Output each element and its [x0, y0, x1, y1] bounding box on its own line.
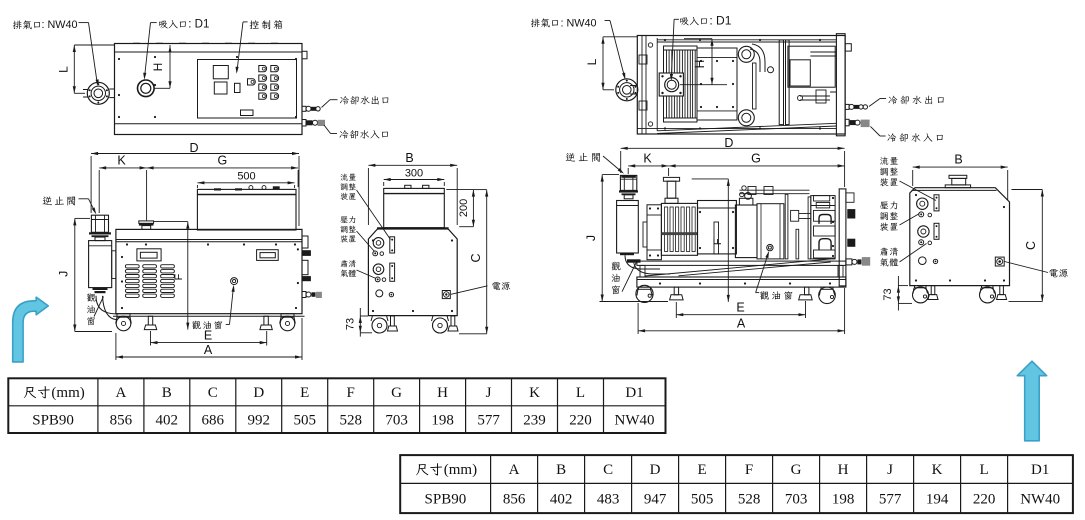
- rs slot gauge 2: [934, 223, 939, 239]
- rs bolt dots: [915, 279, 917, 281]
- name plate right: [257, 250, 279, 261]
- rf left pump block: [647, 205, 661, 260]
- diagonal pipe bottom (top view): [657, 123, 836, 131]
- rf center block: [698, 201, 737, 254]
- svg-text:: D1: : D1: [188, 19, 209, 31]
- oil tank on top: [197, 189, 296, 230]
- svg-text:73: 73: [345, 318, 357, 330]
- svg-text:B: B: [162, 385, 172, 401]
- side feet: [391, 316, 395, 326]
- center plate (top view): [697, 48, 737, 120]
- svg-text:C: C: [469, 253, 483, 262]
- label 電源 (left side): [492, 282, 500, 290]
- svg-text:947: 947: [644, 491, 667, 507]
- leader 排氣口 right: [605, 20, 611, 22]
- rf mid panel: [757, 204, 784, 259]
- svg-text:J: J: [887, 462, 893, 478]
- leader 吸入口 left: [151, 22, 157, 24]
- svg-text:K: K: [643, 152, 652, 166]
- svg-text:300: 300: [405, 167, 423, 179]
- rs body: [910, 188, 1010, 286]
- svg-text:L: L: [980, 462, 989, 478]
- svg-text:NW40: NW40: [615, 412, 655, 428]
- tank caps: [405, 185, 411, 188]
- labels 冷卻水出口 (left top): [340, 96, 349, 105]
- dimension table right (SPB90): [400, 455, 1073, 513]
- label 排氣口: NW40 (left): [13, 21, 22, 30]
- leader 觀油窗 vertical: [94, 297, 104, 317]
- dim A (right): [638, 330, 845, 332]
- svg-text:G: G: [218, 154, 228, 168]
- top view inner top wall lines: [657, 39, 836, 41]
- svg-text:856: 856: [110, 412, 133, 428]
- label 觀油窗 vertical (right front): [611, 262, 620, 271]
- svg-text:H: H: [838, 462, 849, 478]
- label 觀油窗 horizontal (right front): [760, 291, 769, 300]
- rs top cap: [949, 175, 967, 178]
- svg-text:E: E: [698, 462, 707, 478]
- leader 流量 right: [900, 181, 937, 201]
- tank top fittings: [214, 188, 221, 190]
- svg-text:73: 73: [882, 288, 894, 300]
- lower right pipes (top view): [800, 92, 836, 100]
- svg-text:194: 194: [926, 491, 949, 507]
- svg-text:F: F: [347, 385, 355, 401]
- oil sight glass (front): [231, 278, 238, 285]
- small circles under knob1: [373, 251, 378, 256]
- svg-text:D: D: [189, 141, 198, 155]
- label 吸入口: D1 (left): [159, 21, 168, 29]
- rs lower circles: [919, 257, 927, 265]
- svg-text:703: 703: [385, 412, 408, 428]
- dim J (left): [74, 218, 76, 331]
- rf foot left: [674, 287, 678, 295]
- front view right edge bracket 1: [302, 236, 308, 248]
- svg-text:198: 198: [431, 412, 454, 428]
- left top view small tab right: [302, 51, 307, 59]
- rs caster right: [982, 286, 994, 288]
- rf right studs: [846, 193, 854, 202]
- leader 控制箱: [243, 21, 248, 23]
- label 壓力調整裝置 (right side): [880, 201, 888, 209]
- filter drain elbow: [96, 296, 117, 314]
- intake tube on body top: [139, 221, 154, 223]
- left side view: body: [368, 228, 457, 315]
- svg-text:A: A: [115, 385, 126, 401]
- tall bars (top view): [779, 40, 783, 125]
- svg-text:856: 856: [503, 491, 526, 507]
- svg-text:B: B: [954, 153, 962, 167]
- blower circle bottom: [738, 110, 754, 126]
- rf diagonal oil pipes: [645, 259, 831, 276]
- svg-text:220: 220: [569, 412, 592, 428]
- rf caster right: [821, 287, 833, 289]
- svg-text:D: D: [724, 136, 733, 150]
- cyan elbow arrow bottom-left: [13, 297, 49, 362]
- svg-text:D: D: [650, 462, 661, 478]
- exhaust flange NW40 (top view): [87, 82, 109, 104]
- svg-text:577: 577: [477, 412, 500, 428]
- left front view: main body: [116, 229, 302, 313]
- dim H (right top): [711, 39, 713, 85]
- svg-text:686: 686: [202, 412, 225, 428]
- label 壓力調整裝置 (left side): [340, 216, 347, 223]
- right top view: body outline: [637, 36, 845, 135]
- svg-text:D1: D1: [1031, 462, 1049, 478]
- dim K G (right): [628, 165, 668, 167]
- label 流量調整裝置 (left side): [341, 174, 348, 181]
- svg-text:(mm): (mm): [51, 385, 84, 401]
- svg-text:G: G: [751, 152, 761, 166]
- svg-text:577: 577: [879, 491, 902, 507]
- dim L (left top view): [74, 44, 114, 46]
- label 排氣口 NW40 (right): [531, 19, 540, 28]
- top view inner bottom line: [637, 128, 836, 130]
- body bottom base line: [113, 315, 305, 317]
- leader 逆止閥 left: [79, 198, 89, 200]
- rf oil tank: [735, 205, 757, 258]
- rf filter elbow pipes: [625, 255, 660, 269]
- svg-text:SPB90: SPB90: [32, 412, 74, 428]
- svg-text:(mm): (mm): [444, 462, 477, 478]
- leader 觀油窗 vertical right: [622, 262, 637, 292]
- labels 冷卻水入口 (left top): [339, 130, 348, 139]
- leader 肅清氣體 right: [900, 244, 927, 263]
- label 吸入口 D1 (right): [680, 18, 689, 26]
- dim F (right): [692, 178, 729, 180]
- leader 流量: [357, 190, 391, 240]
- svg-text:G: G: [391, 385, 402, 401]
- small circles under knob2: [375, 277, 380, 282]
- label 觀油窗 vertical (left front): [87, 293, 96, 301]
- rf top pipes: [739, 189, 809, 191]
- rs caster left: [915, 286, 927, 288]
- rs knob 2: [918, 226, 929, 237]
- svg-text:F: F: [745, 462, 753, 478]
- svg-text:B: B: [405, 151, 413, 165]
- slot gauge 2: [390, 263, 395, 281]
- dimension table left (SPB90): [8, 378, 665, 433]
- exhaust flange (right top view): [616, 79, 638, 101]
- front view right edge fitting 1: [302, 250, 311, 256]
- svg-text:A: A: [509, 462, 520, 478]
- svg-text:J: J: [486, 385, 492, 401]
- dim 73 (right side): [897, 276, 899, 311]
- front view bolt dots under rail: [126, 243, 128, 245]
- side view tank: [384, 188, 445, 227]
- dim D (right): [621, 147, 845, 149]
- svg-text:H: H: [437, 385, 448, 401]
- flow control knob 1: [373, 238, 384, 249]
- U pipe (top view): [752, 44, 765, 72]
- svg-text:H: H: [693, 60, 707, 69]
- rf filter bottom dark band: [627, 259, 641, 262]
- left top view: pump body outline: [115, 44, 303, 135]
- rf floor line left: [600, 301, 669, 303]
- svg-text:703: 703: [785, 491, 808, 507]
- svg-text:G: G: [791, 462, 802, 478]
- leader 吸入口 right: [674, 18, 679, 20]
- side caster left: [371, 316, 388, 321]
- filter mount bracket: [112, 251, 116, 279]
- blower circle top: [738, 46, 754, 62]
- rf right manifold: [811, 196, 835, 259]
- side view bolt dots: [372, 239, 374, 241]
- caster left: [117, 314, 130, 318]
- dim A (left): [116, 356, 302, 358]
- rf vertical pipes: [785, 194, 788, 259]
- svg-text:C: C: [603, 462, 613, 478]
- svg-text:402: 402: [550, 491, 573, 507]
- dim E (left): [151, 342, 267, 344]
- dim 73 (left side): [359, 308, 361, 337]
- dim C (left side): [486, 190, 488, 334]
- power socket (side): [442, 291, 450, 299]
- svg-text:B: B: [556, 462, 566, 478]
- dim F (left): [154, 221, 188, 223]
- rf purge fitting: [846, 259, 852, 265]
- leader 電源 right: [1005, 262, 1049, 273]
- suction port circle (top view): [138, 80, 155, 97]
- control box D-connectors: [248, 79, 256, 85]
- rs power socket: [995, 257, 1004, 266]
- flange pipe left: [83, 89, 88, 91]
- rf frame upper rail: [637, 261, 846, 265]
- caster right: [281, 314, 294, 318]
- svg-text:K: K: [529, 385, 540, 401]
- rf frame legs: [640, 265, 645, 277]
- rf right end plate: [839, 189, 846, 286]
- rs small circles 2: [919, 240, 924, 245]
- svg-text:505: 505: [293, 412, 316, 428]
- right box (top view): [788, 46, 835, 87]
- rs knob 1: [917, 198, 928, 209]
- rs slot gauge 1: [934, 195, 939, 211]
- leader 壓力: [357, 231, 375, 252]
- top view bolt dots: [664, 39, 666, 41]
- dim 300: [384, 179, 445, 181]
- side caster right: [432, 316, 449, 321]
- dim 200: [472, 190, 474, 227]
- dim C (right side): [1041, 190, 1043, 302]
- control box bottom rect: [241, 110, 254, 116]
- rf ribbed section: [661, 203, 697, 255]
- dim J (right): [601, 175, 603, 302]
- left top view bolt dots: [118, 58, 120, 60]
- cooling fitting in (top view right): [845, 119, 849, 126]
- svg-text:239: 239: [523, 412, 546, 428]
- louver vent grille: [125, 265, 139, 268]
- control box display squares: [213, 66, 228, 79]
- svg-text:L: L: [57, 66, 71, 73]
- label 肅清氣體 (left side): [341, 260, 348, 267]
- rf caster left: [639, 287, 651, 289]
- ribbed housing (top view): [664, 46, 698, 122]
- leader 電源 left: [451, 286, 488, 295]
- dim 500: [197, 182, 294, 184]
- rf intake tube: [663, 177, 679, 181]
- rf center block shaft: [714, 222, 719, 254]
- filter bottom fitting: [93, 288, 108, 290]
- leader 逆止閥 right: [603, 156, 623, 173]
- right end tab: [845, 44, 851, 51]
- svg-text:A: A: [737, 316, 746, 330]
- svg-text:K: K: [117, 154, 126, 168]
- rf frame lower rail: [637, 277, 846, 287]
- slot gauge 1: [390, 237, 395, 253]
- rs foot left: [931, 286, 935, 295]
- svg-text:J: J: [584, 235, 598, 241]
- svg-text:992: 992: [248, 412, 271, 428]
- label 逆止閥 (left): [43, 196, 52, 205]
- flow control knob 2: [373, 264, 384, 275]
- svg-text:: D1: : D1: [709, 14, 731, 28]
- rs foot right: [1000, 286, 1004, 295]
- svg-text:F: F: [712, 238, 724, 245]
- svg-text:E: E: [204, 329, 212, 343]
- rf oil tank cap: [739, 198, 753, 205]
- top view inner pipe between blowers: [753, 63, 757, 109]
- svg-text:A: A: [204, 343, 213, 357]
- labels 冷卻水入口 (right top): [887, 133, 896, 142]
- label 控制箱: [250, 20, 259, 29]
- rf oil sight glass: [767, 244, 773, 250]
- leveling foot left: [148, 316, 152, 325]
- svg-text:528: 528: [339, 412, 362, 428]
- dim K G (left): [99, 167, 146, 169]
- svg-text:E: E: [736, 301, 744, 315]
- svg-text:: NW40: : NW40: [42, 19, 78, 31]
- dim B (right side): [913, 166, 1008, 168]
- rf check valve top box: [620, 175, 636, 190]
- dim H (left top view): [169, 45, 171, 88]
- svg-text:500: 500: [237, 171, 255, 183]
- control box small vertical rect: [235, 83, 241, 92]
- leader 觀油窗 horizontal right: [756, 292, 760, 294]
- labels 冷卻水出口 (right top): [888, 96, 897, 105]
- rf oil mist filter cylinder: [624, 195, 633, 199]
- front view purge fitting: [302, 292, 306, 298]
- rf check valve flange: [619, 190, 638, 192]
- cooling water fittings right (top view): [302, 106, 306, 111]
- dim L (right top): [602, 37, 604, 90]
- label 肅清氣體 (right side): [880, 247, 888, 255]
- leader 肅清氣體: [357, 270, 377, 279]
- front view right edge fitting 2: [302, 276, 311, 281]
- svg-text:220: 220: [973, 491, 996, 507]
- name plate left: [137, 249, 161, 261]
- label 電源 (right side): [1049, 269, 1057, 277]
- leader 壓力 right: [900, 214, 920, 226]
- label 觀油窗 horizontal (left front): [192, 321, 201, 329]
- check valve top box: [91, 215, 108, 232]
- right end plate (top view): [836, 34, 845, 136]
- svg-text:C: C: [208, 385, 218, 401]
- suction square flange (top view): [659, 73, 683, 96]
- svg-text:NW40: NW40: [1020, 491, 1060, 507]
- left top view top edge tick marks: [133, 42, 140, 44]
- svg-text:200: 200: [458, 199, 470, 217]
- cooling fitting out (top view right): [845, 104, 849, 109]
- svg-text:E: E: [300, 385, 309, 401]
- front view right edge bracket 2: [302, 260, 308, 274]
- leader 排氣口 left: [79, 22, 89, 24]
- svg-text:F: F: [173, 273, 185, 280]
- left end plate details (top view): [641, 36, 643, 135]
- label 流量調整裝置 (right side): [880, 157, 888, 165]
- leveling foot right: [264, 316, 268, 325]
- svg-text:J: J: [57, 271, 71, 277]
- oil mist filter cylinder: [89, 241, 112, 288]
- dim D (left): [91, 153, 299, 155]
- rf foot right: [805, 287, 809, 295]
- svg-text:L: L: [576, 385, 585, 401]
- rs small circles 1: [919, 212, 924, 217]
- flange stub to body: [109, 88, 114, 90]
- check valve flange: [89, 232, 111, 234]
- svg-text:: NW40: : NW40: [561, 17, 597, 29]
- svg-text:528: 528: [738, 491, 761, 507]
- svg-text:SPB90: SPB90: [425, 491, 467, 507]
- lower circles: [376, 290, 383, 297]
- leader 觀油窗 horizontal: [226, 324, 230, 326]
- label 逆止閥 (right): [566, 153, 575, 162]
- svg-text:H: H: [151, 63, 165, 72]
- svg-text:D: D: [253, 385, 264, 401]
- dim B (left side): [368, 164, 457, 166]
- svg-text:198: 198: [832, 491, 855, 507]
- control box outline: [198, 60, 297, 119]
- svg-text:402: 402: [156, 412, 179, 428]
- cyan up arrow bottom-right: [1017, 361, 1046, 441]
- dim E (right): [676, 314, 805, 316]
- svg-text:L: L: [585, 58, 599, 65]
- svg-text:505: 505: [691, 491, 714, 507]
- svg-text:D1: D1: [625, 385, 643, 401]
- svg-text:C: C: [1024, 241, 1038, 250]
- svg-text:483: 483: [597, 491, 620, 507]
- small circle (top view): [768, 67, 774, 73]
- svg-text:K: K: [932, 462, 943, 478]
